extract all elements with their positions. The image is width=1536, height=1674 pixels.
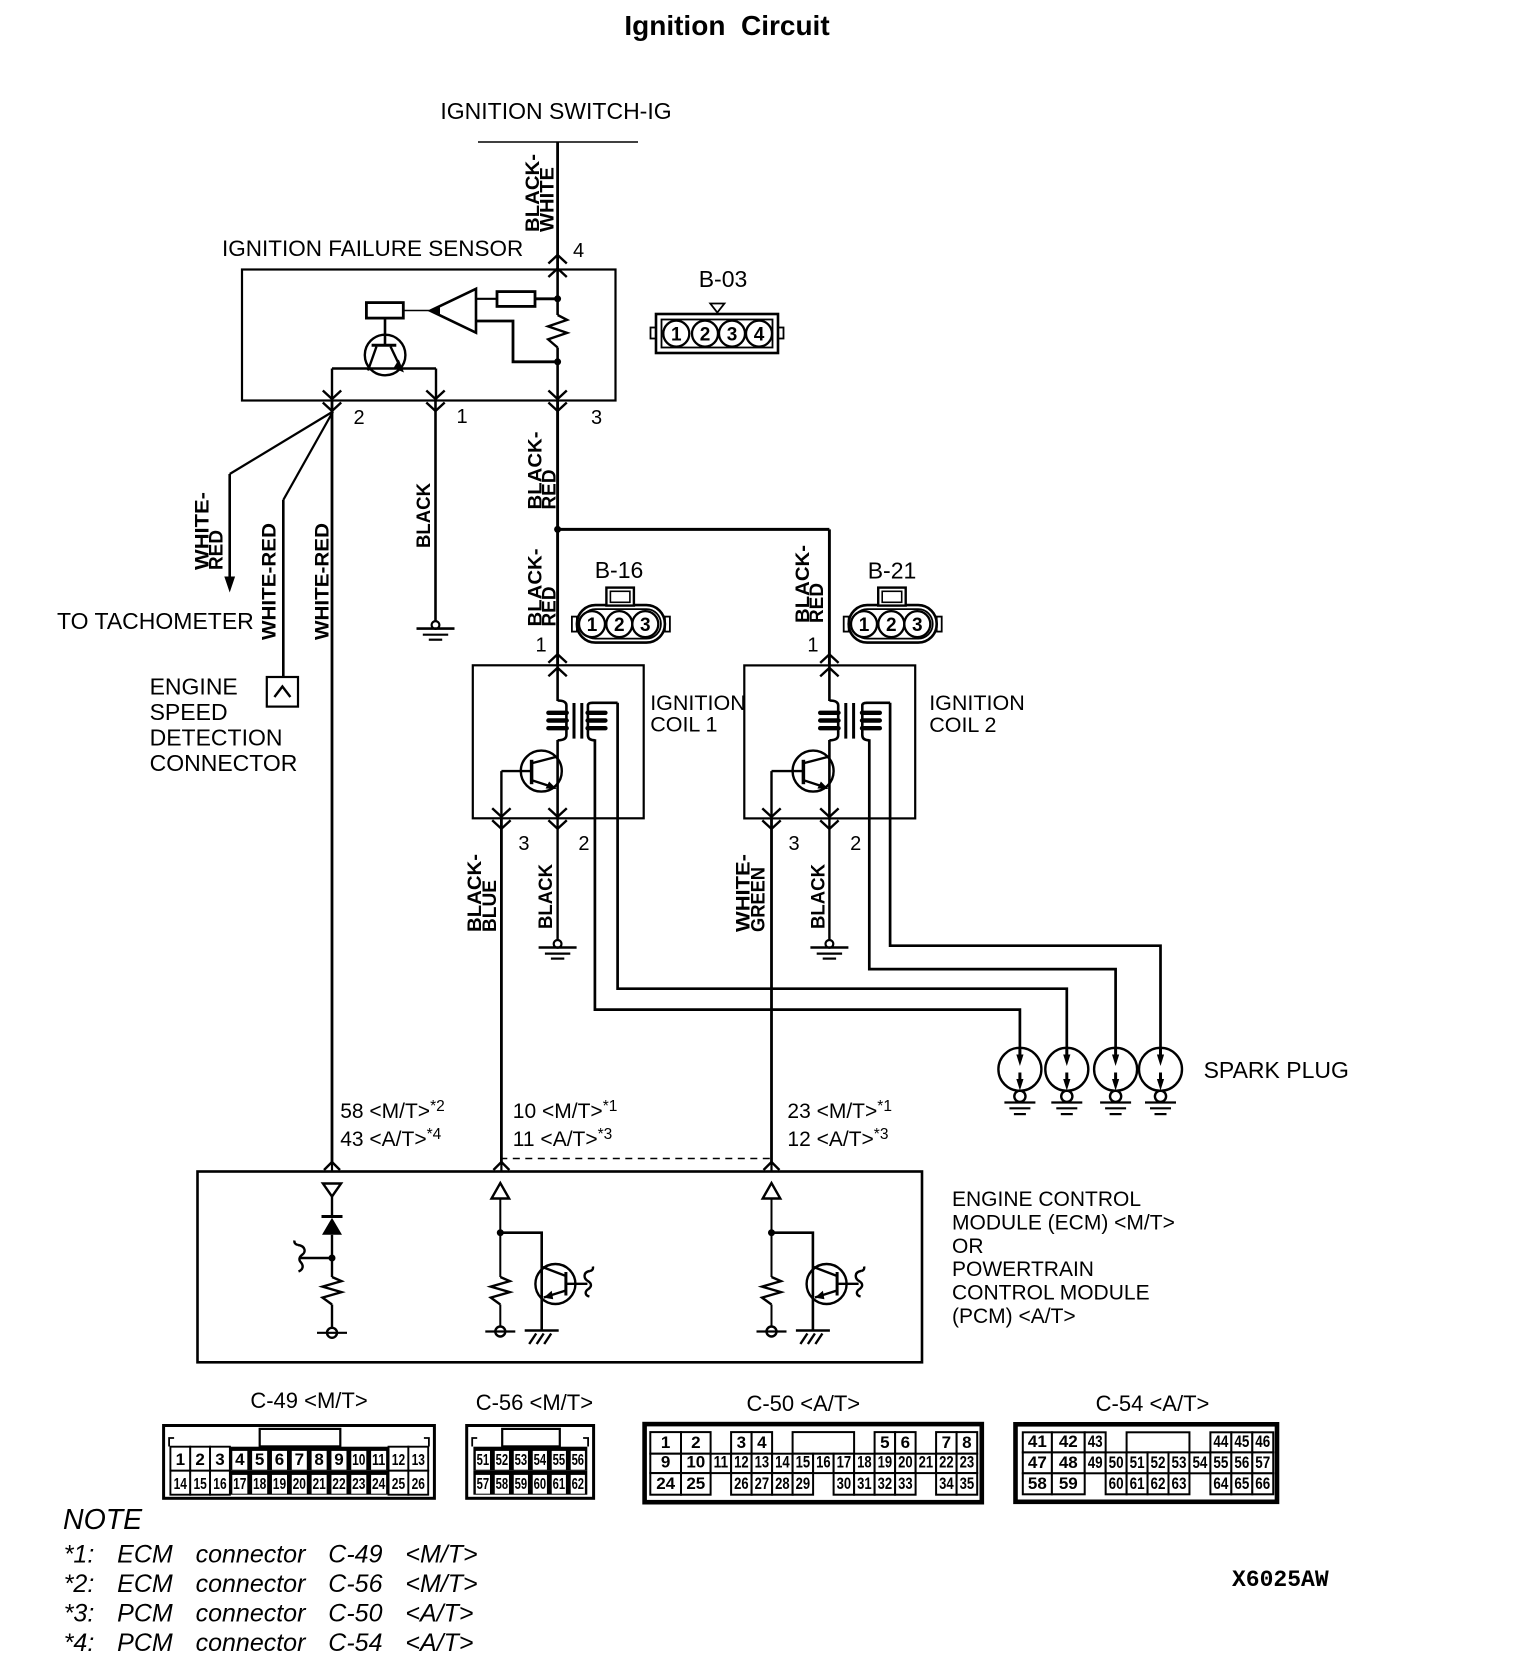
svg-text:5: 5 [880, 1433, 889, 1452]
svg-text:22: 22 [939, 1453, 954, 1472]
svg-text:11: 11 [372, 1452, 385, 1469]
svg-text:4: 4 [573, 240, 584, 262]
svg-text:2: 2 [850, 833, 861, 855]
svg-text:6: 6 [275, 1450, 284, 1469]
svg-text:26: 26 [734, 1474, 749, 1493]
svg-text:55: 55 [1213, 1453, 1228, 1472]
svg-text:16: 16 [816, 1453, 831, 1472]
svg-text:1: 1 [536, 635, 547, 657]
svg-text:57: 57 [1255, 1453, 1270, 1472]
svg-text:4: 4 [757, 1433, 767, 1452]
svg-text:10 <M/T>*1: 10 <M/T>*1 [513, 1098, 618, 1123]
svg-text:10: 10 [352, 1452, 365, 1469]
svg-text:18: 18 [253, 1476, 266, 1493]
svg-text:CONTROL MODULE: CONTROL MODULE [952, 1282, 1150, 1305]
svg-text:3: 3 [591, 407, 602, 429]
svg-text:16: 16 [213, 1476, 226, 1493]
svg-text:12: 12 [392, 1452, 405, 1469]
svg-text:ENGINE: ENGINE [150, 674, 238, 700]
svg-text:(PCM) <A/T>: (PCM) <A/T> [952, 1305, 1076, 1328]
svg-text:61: 61 [1130, 1474, 1145, 1493]
svg-text:1: 1 [587, 615, 598, 636]
svg-text:B-16: B-16 [595, 557, 644, 583]
svg-text:58: 58 [496, 1476, 509, 1493]
svg-text:1: 1 [859, 615, 870, 636]
svg-text:54: 54 [534, 1452, 547, 1469]
svg-text:RED: RED [206, 530, 228, 570]
svg-text:1: 1 [176, 1450, 185, 1469]
svg-text:8: 8 [314, 1450, 323, 1469]
svg-text:C-56 <M/T>: C-56 <M/T> [476, 1390, 593, 1415]
svg-text:X6025AW: X6025AW [1232, 1567, 1329, 1593]
svg-text:66: 66 [1255, 1474, 1270, 1493]
svg-text:63: 63 [1172, 1474, 1187, 1493]
svg-text:53: 53 [515, 1452, 528, 1469]
svg-text:44: 44 [1213, 1432, 1228, 1451]
svg-text:8: 8 [962, 1433, 971, 1452]
svg-text:57: 57 [477, 1476, 490, 1493]
svg-text:*4: PCM connector C-54 <A/: *4: PCM connector C-54 <A/T> [64, 1629, 474, 1657]
svg-text:9: 9 [334, 1450, 343, 1469]
svg-text:52: 52 [1151, 1453, 1166, 1472]
svg-text:OR: OR [952, 1235, 984, 1258]
svg-text:3: 3 [215, 1450, 224, 1469]
svg-text:20: 20 [293, 1476, 306, 1493]
svg-text:15: 15 [796, 1453, 811, 1472]
svg-text:MODULE (ECM) <M/T>: MODULE (ECM) <M/T> [952, 1211, 1175, 1234]
svg-text:24: 24 [656, 1474, 675, 1493]
svg-text:2: 2 [578, 833, 589, 855]
svg-text:23: 23 [960, 1453, 975, 1472]
svg-text:2: 2 [614, 615, 625, 636]
svg-text:34: 34 [939, 1474, 954, 1493]
svg-text:2: 2 [700, 325, 711, 346]
svg-text:31: 31 [857, 1474, 872, 1493]
svg-text:19: 19 [273, 1476, 286, 1493]
svg-text:DETECTION: DETECTION [150, 725, 283, 751]
svg-text:12: 12 [734, 1453, 749, 1472]
svg-text:25: 25 [686, 1474, 705, 1493]
svg-text:IGNITION: IGNITION [929, 691, 1025, 715]
svg-text:B-21: B-21 [868, 558, 917, 584]
svg-text:CONNECTOR: CONNECTOR [150, 750, 298, 776]
svg-text:65: 65 [1234, 1474, 1249, 1493]
svg-text:POWERTRAIN: POWERTRAIN [952, 1258, 1094, 1281]
svg-text:41: 41 [1028, 1432, 1047, 1451]
svg-text:WHITE-RED: WHITE-RED [259, 523, 281, 640]
svg-text:27: 27 [755, 1474, 770, 1493]
svg-text:55: 55 [553, 1452, 566, 1469]
svg-text:C-54 <A/T>: C-54 <A/T> [1096, 1391, 1210, 1416]
svg-text:23: 23 [352, 1476, 365, 1493]
svg-text:17: 17 [233, 1476, 246, 1493]
svg-text:32: 32 [878, 1474, 893, 1493]
svg-text:7: 7 [295, 1450, 304, 1469]
svg-text:1: 1 [661, 1433, 670, 1452]
svg-text:3: 3 [727, 325, 738, 346]
svg-text:52: 52 [496, 1452, 509, 1469]
svg-text:B-03: B-03 [699, 266, 748, 292]
svg-text:21: 21 [919, 1453, 934, 1472]
svg-text:48: 48 [1059, 1453, 1078, 1472]
svg-text:2: 2 [691, 1433, 700, 1452]
svg-text:9: 9 [661, 1453, 670, 1472]
svg-text:47: 47 [1028, 1453, 1047, 1472]
svg-text:BLACK: BLACK [808, 864, 830, 929]
svg-text:WHITE-RED: WHITE-RED [312, 523, 334, 640]
svg-text:19: 19 [878, 1453, 893, 1472]
svg-text:1: 1 [671, 325, 682, 346]
svg-text:4: 4 [235, 1450, 245, 1469]
svg-text:45: 45 [1234, 1432, 1249, 1451]
svg-text:IGNITION: IGNITION [650, 691, 746, 715]
svg-text:Ignition Circuit: Ignition Circuit [624, 10, 829, 41]
svg-text:59: 59 [515, 1476, 528, 1493]
svg-text:62: 62 [572, 1476, 585, 1493]
svg-text:49: 49 [1088, 1453, 1103, 1472]
svg-text:IGNITION FAILURE SENSOR: IGNITION FAILURE SENSOR [222, 236, 523, 261]
svg-text:14: 14 [174, 1476, 187, 1493]
svg-text:58 <M/T>*2: 58 <M/T>*2 [340, 1098, 445, 1123]
svg-text:21: 21 [312, 1476, 325, 1493]
svg-text:2: 2 [195, 1450, 204, 1469]
svg-text:59: 59 [1059, 1474, 1078, 1493]
svg-text:IGNITION SWITCH-IG: IGNITION SWITCH-IG [440, 98, 671, 124]
svg-text:24: 24 [372, 1476, 385, 1493]
svg-text:56: 56 [1234, 1453, 1249, 1472]
svg-text:58: 58 [1028, 1474, 1047, 1493]
svg-text:13: 13 [755, 1453, 770, 1472]
svg-text:GREEN: GREEN [748, 867, 770, 932]
svg-text:18: 18 [857, 1453, 872, 1472]
svg-text:56: 56 [572, 1452, 585, 1469]
svg-text:RED: RED [806, 583, 828, 623]
svg-text:BLACK: BLACK [413, 483, 435, 548]
svg-text:ENGINE CONTROL: ENGINE CONTROL [952, 1188, 1141, 1211]
svg-text:15: 15 [193, 1476, 206, 1493]
svg-text:42: 42 [1059, 1432, 1078, 1451]
svg-text:46: 46 [1255, 1432, 1270, 1451]
svg-text:35: 35 [960, 1474, 975, 1493]
svg-text:2: 2 [353, 407, 364, 429]
svg-text:3: 3 [737, 1433, 746, 1452]
svg-text:23 <M/T>*1: 23 <M/T>*1 [787, 1098, 892, 1123]
svg-text:30: 30 [837, 1474, 852, 1493]
svg-text:SPARK PLUG: SPARK PLUG [1204, 1057, 1349, 1083]
svg-text:4: 4 [754, 325, 765, 346]
svg-text:COIL 2: COIL 2 [929, 713, 996, 737]
svg-text:33: 33 [898, 1474, 913, 1493]
svg-text:20: 20 [898, 1453, 913, 1472]
svg-text:C-49 <M/T>: C-49 <M/T> [250, 1388, 367, 1413]
svg-text:60: 60 [1109, 1474, 1124, 1493]
svg-text:*3: PCM connector C-50 <A/: *3: PCM connector C-50 <A/T> [64, 1600, 474, 1628]
svg-text:RED: RED [539, 587, 561, 627]
svg-text:*1: ECM connector C-49 <M/: *1: ECM connector C-49 <M/T> [64, 1541, 478, 1569]
svg-text:28: 28 [775, 1474, 790, 1493]
svg-text:3: 3 [912, 615, 923, 636]
svg-text:TO TACHOMETER: TO TACHOMETER [57, 608, 254, 634]
svg-text:61: 61 [553, 1476, 566, 1493]
svg-text:RED: RED [539, 470, 561, 510]
svg-text:BLUE: BLUE [479, 880, 501, 932]
svg-text:53: 53 [1172, 1453, 1187, 1472]
svg-text:22: 22 [332, 1476, 345, 1493]
svg-text:43 <A/T>*4: 43 <A/T>*4 [340, 1126, 441, 1151]
svg-text:13: 13 [412, 1452, 425, 1469]
svg-text:26: 26 [412, 1476, 425, 1493]
svg-text:1: 1 [807, 635, 818, 657]
svg-text:14: 14 [775, 1453, 790, 1472]
svg-text:3: 3 [788, 833, 799, 855]
svg-text:3: 3 [640, 615, 651, 636]
svg-text:54: 54 [1192, 1453, 1207, 1472]
svg-text:3: 3 [518, 833, 529, 855]
svg-text:COIL 1: COIL 1 [650, 713, 717, 737]
svg-text:25: 25 [392, 1476, 405, 1493]
svg-text:1: 1 [456, 406, 467, 428]
svg-text:6: 6 [901, 1433, 910, 1452]
svg-text:2: 2 [886, 615, 897, 636]
svg-text:BLACK: BLACK [535, 864, 557, 929]
svg-text:C-50 <A/T>: C-50 <A/T> [746, 1391, 860, 1416]
svg-text:60: 60 [534, 1476, 547, 1493]
svg-text:51: 51 [1130, 1453, 1145, 1472]
svg-text:11: 11 [714, 1453, 729, 1472]
svg-text:50: 50 [1109, 1453, 1124, 1472]
svg-text:11 <A/T>*3: 11 <A/T>*3 [513, 1126, 613, 1151]
svg-text:51: 51 [477, 1452, 490, 1469]
svg-text:12 <A/T>*3: 12 <A/T>*3 [787, 1126, 888, 1151]
svg-text:7: 7 [942, 1433, 951, 1452]
svg-text:WHITE: WHITE [537, 167, 559, 232]
svg-text:64: 64 [1213, 1474, 1228, 1493]
svg-text:10: 10 [686, 1453, 705, 1472]
svg-text:5: 5 [255, 1450, 264, 1469]
svg-text:*2: ECM connector C-56 <M/: *2: ECM connector C-56 <M/T> [64, 1570, 478, 1598]
svg-text:43: 43 [1088, 1432, 1103, 1451]
svg-text:NOTE: NOTE [63, 1504, 143, 1536]
svg-text:SPEED: SPEED [150, 699, 228, 725]
svg-text:29: 29 [796, 1474, 811, 1493]
svg-text:17: 17 [837, 1453, 852, 1472]
svg-text:62: 62 [1151, 1474, 1166, 1493]
